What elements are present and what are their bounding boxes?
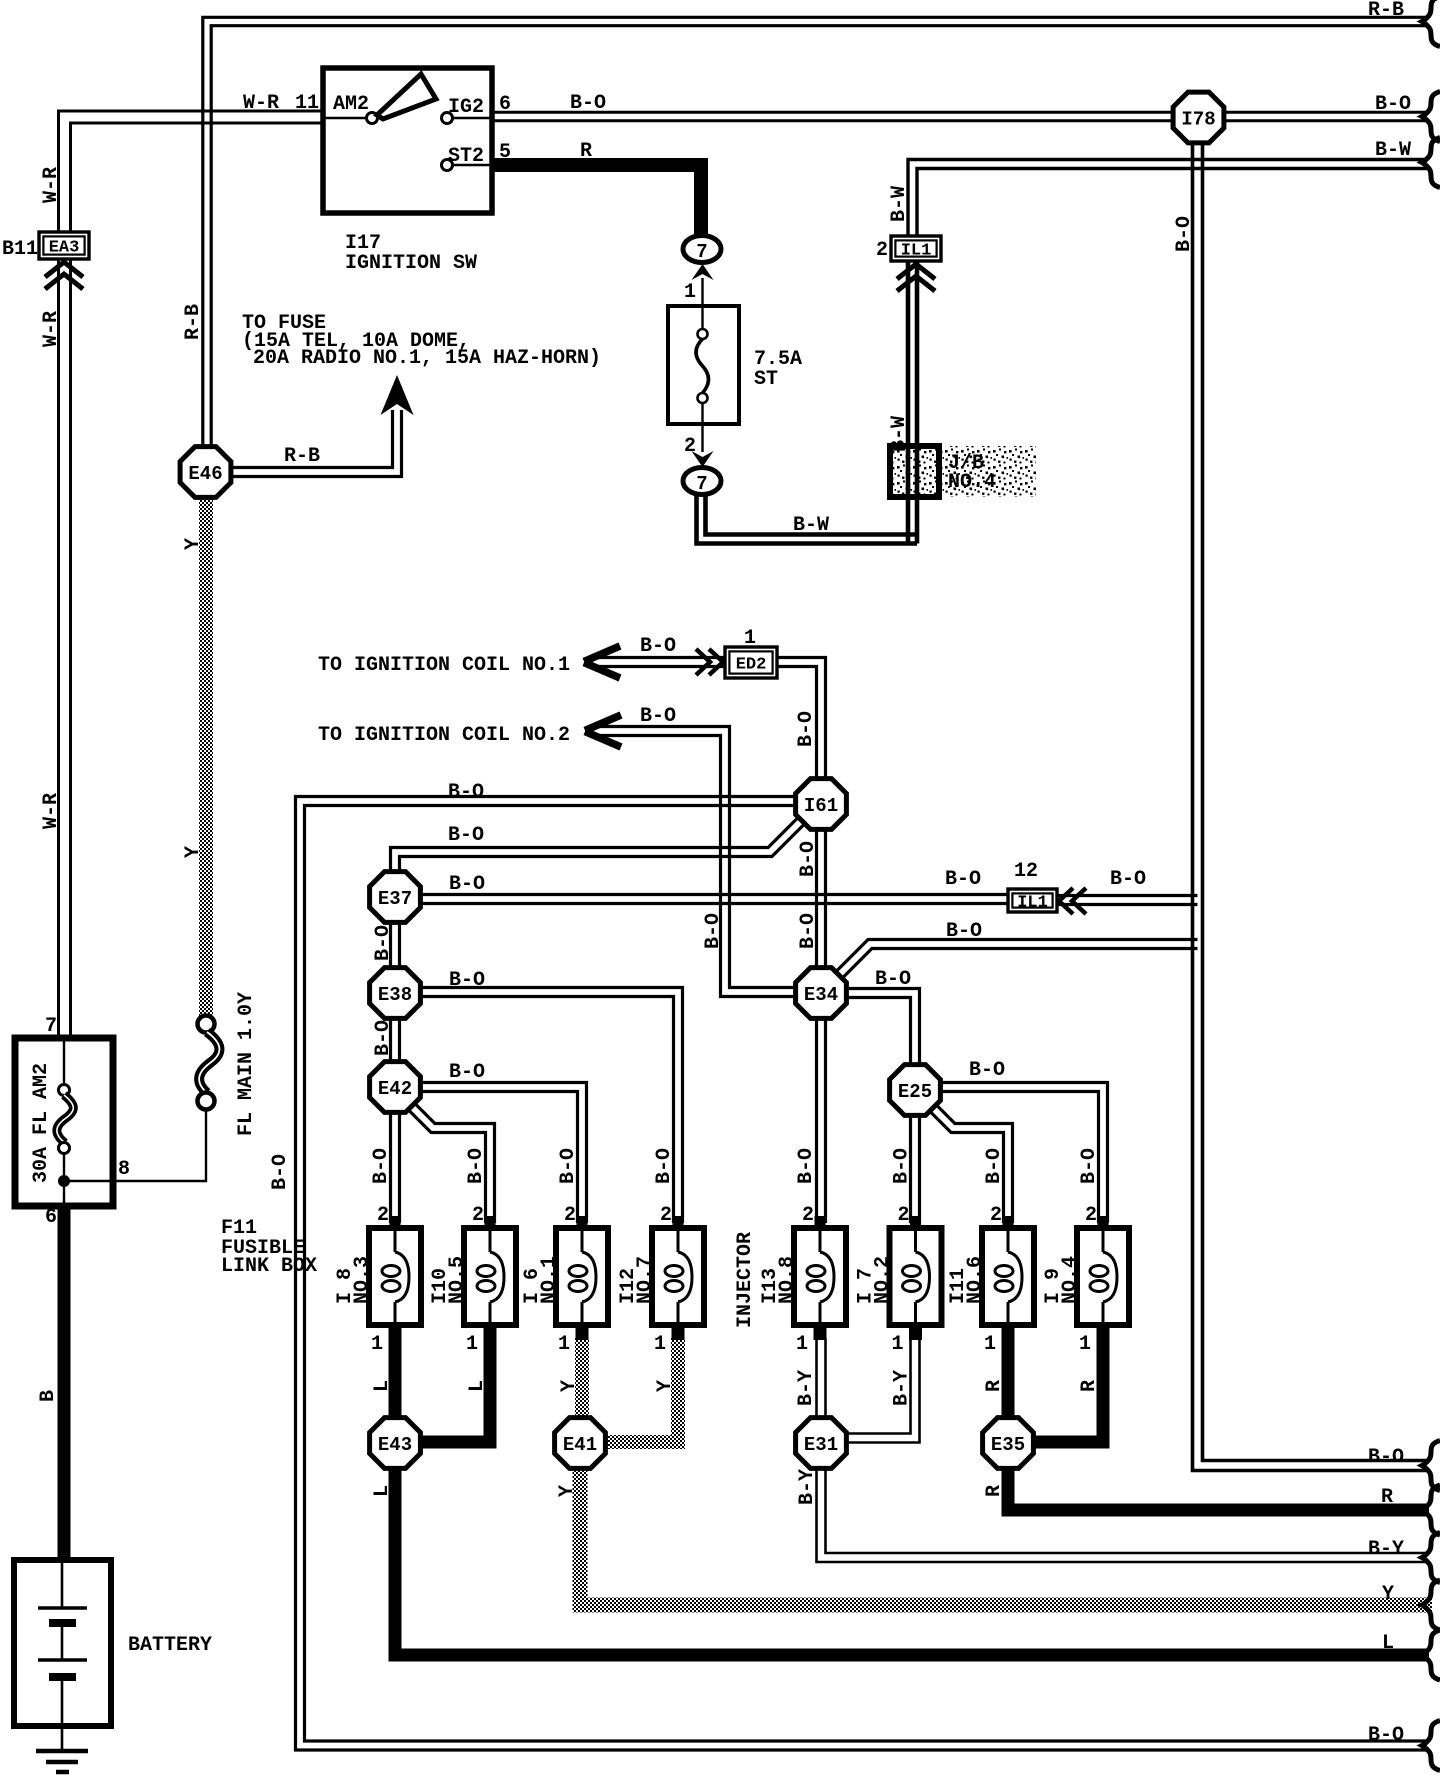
- svg-text:W-R: W-R: [243, 92, 279, 115]
- continuation brace B-O: [1422, 92, 1440, 142]
- continuation brace L: [1422, 1630, 1440, 1680]
- svg-text:2: 2: [660, 1204, 672, 1227]
- svg-text:Y: Y: [182, 846, 205, 858]
- connector E38: [370, 968, 421, 1019]
- wire L injector I8 no.3 to E43: [389, 1338, 402, 1420]
- injector I 8 NO.3: [390, 1216, 401, 1229]
- svg-text:1: 1: [744, 627, 756, 650]
- arrowhead into oval 7 top: [692, 264, 714, 280]
- svg-text:B-O: B-O: [269, 1154, 292, 1190]
- wire B-O E25 to injector I9 no.4: [941, 1083, 1108, 1224]
- svg-text:B-W: B-W: [888, 416, 911, 452]
- svg-text:B-O: B-O: [557, 1148, 580, 1184]
- wire B-O E25 to injector I7 no.2: [918, 1114, 921, 1223]
- svg-text:E42: E42: [378, 1078, 412, 1100]
- svg-text:B-Y: B-Y: [891, 1370, 914, 1406]
- svg-text:NO.2: NO.2: [872, 1256, 895, 1304]
- svg-text:B-O: B-O: [448, 824, 484, 847]
- connector EA3: [39, 232, 89, 259]
- svg-text:6: 6: [45, 1206, 57, 1229]
- wire R E35 to right edge: [1008, 1467, 1429, 1510]
- svg-text:2: 2: [897, 1204, 909, 1227]
- svg-text:L: L: [371, 1485, 394, 1497]
- fuse pin 7 oval bottom: [683, 468, 721, 495]
- connector ED2: [725, 647, 777, 678]
- svg-text:NO.4: NO.4: [948, 471, 996, 494]
- svg-text:NO.8: NO.8: [776, 1256, 799, 1304]
- svg-text:L: L: [371, 1380, 394, 1392]
- svg-text:Y: Y: [558, 1380, 581, 1392]
- svg-text:2: 2: [802, 1204, 814, 1227]
- svg-text:TO IGNITION COIL NO.2: TO IGNITION COIL NO.2: [318, 724, 570, 747]
- I17 terminal AM2: [367, 113, 378, 124]
- svg-text:B-O: B-O: [1375, 93, 1411, 116]
- chevron arrow into ED2: [709, 649, 723, 675]
- svg-text:B: B: [37, 1390, 60, 1402]
- svg-text:2: 2: [1085, 1204, 1097, 1227]
- continuation brace B-O bottom: [1422, 1721, 1440, 1771]
- connector E43: [370, 1418, 421, 1469]
- svg-text:B-O: B-O: [640, 705, 676, 728]
- svg-text:E46: E46: [188, 463, 222, 485]
- svg-text:B-O: B-O: [797, 913, 820, 949]
- wire R-B top line to right edge: [211, 26, 1427, 449]
- battery symbol: [61, 1560, 64, 1607]
- wire B-O E42 to injector I6 no.1: [421, 1083, 587, 1224]
- fuse 7.5A ST element: [701, 278, 703, 330]
- svg-text:2: 2: [990, 1204, 1002, 1227]
- svg-text:B-O: B-O: [875, 968, 911, 991]
- svg-text:Y: Y: [654, 1380, 677, 1392]
- svg-text:B-O: B-O: [795, 1148, 818, 1184]
- svg-text:W-R: W-R: [40, 311, 63, 347]
- svg-text:NO.7: NO.7: [634, 1256, 657, 1304]
- svg-text:ST2: ST2: [448, 145, 484, 168]
- wire B-O I61 to E34: [824, 827, 827, 969]
- svg-text:B-O: B-O: [945, 868, 981, 891]
- injector I 6 NO.1: [577, 1216, 588, 1229]
- ignition switch I17 box: [323, 68, 492, 213]
- svg-text:I78: I78: [1181, 109, 1215, 131]
- svg-text:W-R: W-R: [40, 793, 63, 829]
- svg-text:E35: E35: [991, 1434, 1025, 1456]
- svg-text:EA3: EA3: [49, 239, 80, 258]
- svg-text:L: L: [466, 1380, 489, 1392]
- connector IL1 pin12: [1008, 889, 1057, 912]
- svg-text:B-O: B-O: [946, 920, 982, 943]
- svg-text:LINK BOX: LINK BOX: [221, 1255, 317, 1278]
- wire B-O to ignition coil no.1 from ED2: [597, 656, 727, 659]
- svg-text:E34: E34: [804, 984, 838, 1006]
- svg-text:E37: E37: [378, 888, 412, 910]
- svg-text:2: 2: [377, 1204, 389, 1227]
- fusible link box F11: [15, 1038, 113, 1206]
- wire B-O E38 to injector I12 no.7: [421, 988, 683, 1224]
- arrowhead into oval 7 bottom: [692, 451, 714, 467]
- svg-text:INJECTOR: INJECTOR: [734, 1232, 757, 1328]
- svg-text:BATTERY: BATTERY: [128, 1634, 212, 1657]
- svg-text:IL1: IL1: [901, 242, 932, 261]
- svg-text:2: 2: [876, 239, 888, 262]
- svg-text:B-O: B-O: [449, 873, 485, 896]
- battery box: [14, 1560, 111, 1726]
- chevron arrow out of IL1-12: [1059, 888, 1073, 914]
- svg-text:8: 8: [118, 1158, 130, 1181]
- svg-text:B-W: B-W: [793, 514, 829, 537]
- connector E42: [370, 1062, 421, 1113]
- connector I61: [796, 779, 847, 830]
- injector I11 NO.6: [1003, 1216, 1014, 1229]
- wire B-O E34 diagonal to I78 vertical: [834, 940, 1198, 974]
- wire Y injector I12 no.7 to E41: [607, 1338, 678, 1442]
- connector E37: [370, 872, 421, 923]
- svg-text:B-O: B-O: [465, 1148, 488, 1184]
- svg-text:Y: Y: [182, 538, 205, 550]
- svg-text:E41: E41: [563, 1434, 597, 1456]
- svg-text:B-O: B-O: [448, 781, 484, 804]
- svg-text:IG2: IG2: [448, 96, 484, 119]
- wire B-W IL1 down to J/B No.4: [915, 259, 920, 544]
- svg-text:B-W: B-W: [1375, 139, 1411, 162]
- svg-text:R: R: [580, 140, 592, 163]
- svg-text:5: 5: [499, 141, 511, 164]
- svg-text:B-Y: B-Y: [796, 1469, 819, 1505]
- continuation brace B-O lower: [1422, 1441, 1440, 1491]
- svg-text:B-O: B-O: [570, 92, 606, 115]
- svg-text:2: 2: [472, 1204, 484, 1227]
- svg-text:B-O: B-O: [372, 1020, 395, 1056]
- injector I12 NO.7: [673, 1216, 684, 1229]
- chevron arrow below IL1-2: [897, 264, 935, 279]
- svg-text:R-B: R-B: [182, 304, 205, 340]
- svg-text:B-O: B-O: [1368, 1724, 1404, 1747]
- I17 terminal ST2: [442, 160, 453, 171]
- continuation brace R: [1422, 1485, 1440, 1535]
- svg-text:B-O: B-O: [370, 1148, 393, 1184]
- svg-text:ST: ST: [754, 368, 778, 391]
- connector I78: [1173, 92, 1224, 143]
- chevron arrow below EA3: [45, 262, 83, 277]
- svg-text:L: L: [1382, 1632, 1394, 1655]
- wire B-O E42 to injector I8 no.3: [398, 1110, 401, 1223]
- svg-text:W-R: W-R: [40, 167, 63, 203]
- wire B-O E42 diagonal to injector I10 no.5: [411, 1100, 494, 1223]
- wire B-O E37 to E38: [398, 921, 401, 969]
- wire R ST2 to fuse oval 7: [492, 165, 701, 238]
- svg-text:1: 1: [466, 1333, 478, 1356]
- svg-text:R: R: [983, 1485, 1006, 1497]
- svg-text:Y: Y: [1382, 1583, 1394, 1606]
- svg-text:R: R: [1381, 1486, 1393, 1509]
- svg-text:B-O: B-O: [891, 1148, 914, 1184]
- svg-text:B-O: B-O: [1078, 1148, 1101, 1184]
- svg-text:1: 1: [654, 1333, 666, 1356]
- svg-text:20A RADIO NO.1, 15A HAZ-HORN): 20A RADIO NO.1, 15A HAZ-HORN): [253, 347, 601, 370]
- injector I13 NO.8: [815, 1216, 826, 1229]
- svg-text:I61: I61: [804, 795, 838, 817]
- svg-text:E43: E43: [378, 1434, 412, 1456]
- svg-text:E31: E31: [804, 1434, 838, 1456]
- svg-text:2: 2: [684, 435, 696, 458]
- wire B-O ED2 to I61: [776, 658, 826, 782]
- arrowhead to fuse arrow: [381, 375, 414, 415]
- connector E41: [555, 1418, 606, 1469]
- connector IL1 pin2: [891, 236, 941, 261]
- svg-text:1: 1: [558, 1333, 570, 1356]
- svg-text:Y: Y: [556, 1485, 579, 1497]
- ground symbol: [36, 1749, 88, 1754]
- svg-text:NO.1: NO.1: [538, 1256, 561, 1304]
- wire B-Y injector I13 no.8 to E31: [824, 1338, 827, 1420]
- svg-text:B11: B11: [2, 238, 38, 261]
- wire B-O E34 to injector I13 no.8: [824, 1017, 827, 1223]
- arrowhead to ignition coil no.1: [584, 646, 620, 662]
- connector E46: [180, 447, 231, 498]
- injector I10 NO.5: [485, 1216, 496, 1229]
- svg-text:B-O: B-O: [795, 711, 818, 747]
- svg-text:1: 1: [796, 1333, 808, 1356]
- svg-text:ED2: ED2: [736, 656, 767, 675]
- wire B-O to ignition coil no.2 from E34: [597, 727, 798, 988]
- connector E25: [890, 1065, 941, 1116]
- svg-text:B-O: B-O: [969, 1059, 1005, 1082]
- wire Y E46 down to FL MAIN: [199, 496, 213, 1018]
- wire B-O E34 to E25: [845, 989, 920, 1067]
- continuation brace B-W: [1422, 138, 1440, 188]
- injector I 9 NO.4: [1098, 1216, 1109, 1229]
- wire R injector I9 no.4 to E35: [1034, 1338, 1103, 1442]
- svg-text:B-O: B-O: [449, 969, 485, 992]
- svg-text:TO IGNITION COIL NO.1: TO IGNITION COIL NO.1: [318, 654, 570, 677]
- svg-text:B-O: B-O: [1110, 868, 1146, 891]
- wire Y E41 to right edge: [580, 1467, 1432, 1605]
- fusible link FL MAIN 1.0Y: [198, 1016, 215, 1033]
- connector E31: [796, 1418, 847, 1469]
- svg-text:B-O: B-O: [797, 841, 820, 877]
- svg-text:E38: E38: [378, 984, 412, 1006]
- svg-text:30A FL AM2: 30A FL AM2: [30, 1063, 53, 1183]
- wire B-O IG2 to right edge: [492, 111, 1427, 114]
- connector E34: [796, 968, 847, 1019]
- I17 switch lever: [377, 74, 436, 119]
- svg-text:11: 11: [295, 92, 319, 115]
- wire fusible link pin 8 to FL MAIN: [64, 1110, 206, 1181]
- I17 terminal AM2 wire: [323, 117, 366, 119]
- wire B fusible link box to battery: [58, 1206, 71, 1562]
- wire R injector I11 no.6 to E35: [1002, 1338, 1015, 1420]
- continuation brace B-Y: [1422, 1533, 1440, 1583]
- svg-text:NO.6: NO.6: [964, 1256, 987, 1304]
- wire B-O IL1-12 to I78 vertical: [1056, 894, 1198, 897]
- wire W-R battery to ignition SW horizontal: [71, 123, 324, 234]
- svg-text:B-Y: B-Y: [795, 1370, 818, 1406]
- svg-text:6: 6: [499, 93, 511, 116]
- junction block J/B NO.4: [936, 446, 1036, 497]
- svg-text:NO.5: NO.5: [446, 1256, 469, 1304]
- svg-text:AM2: AM2: [333, 93, 369, 116]
- svg-text:E25: E25: [898, 1081, 932, 1103]
- svg-text:1: 1: [984, 1333, 996, 1356]
- svg-text:NO.4: NO.4: [1059, 1256, 1082, 1304]
- arrowhead to ignition coil no.2: [585, 715, 621, 731]
- svg-text:B-Y: B-Y: [1368, 1538, 1404, 1561]
- continuation brace Y: [1422, 1580, 1440, 1630]
- fuse pin 7 oval top: [683, 236, 721, 263]
- wire B-O E25 diagonal to injector I11 no.6: [931, 1100, 1012, 1223]
- wire B-Y injector I7 no.2 to E31: [847, 1338, 920, 1443]
- I17 terminal IG2: [442, 113, 453, 124]
- svg-text:7: 7: [696, 473, 707, 495]
- svg-text:1: 1: [684, 281, 696, 304]
- svg-text:1: 1: [1079, 1333, 1091, 1356]
- injector I 7 NO.2: [910, 1216, 921, 1229]
- wire Y injector I6 no.1 to E41: [575, 1338, 589, 1420]
- wire W-R EA3 to fusible link box: [69, 259, 72, 1040]
- svg-text:R: R: [983, 1380, 1006, 1392]
- svg-text:2: 2: [564, 1204, 576, 1227]
- svg-text:R: R: [1078, 1380, 1101, 1392]
- svg-text:B-O: B-O: [983, 1148, 1006, 1184]
- svg-text:1: 1: [891, 1333, 903, 1356]
- fuse 7.5A ST box: [668, 306, 739, 424]
- svg-text:7: 7: [696, 241, 707, 263]
- wire B-O E37 to IL1-12: [421, 893, 1009, 896]
- svg-text:IL1: IL1: [1017, 894, 1048, 913]
- wire B-Y E31 to right edge: [826, 1467, 1428, 1553]
- wire B-O I78 down to bottom right exit: [1203, 140, 1428, 1461]
- wire R-B E46 to fuse arrow: [231, 410, 393, 468]
- wire L injector I10 no.5 to E43: [422, 1338, 490, 1442]
- svg-text:B-O: B-O: [372, 925, 395, 961]
- fusible link 30A FL AM2: [63, 1038, 65, 1085]
- svg-text:B-O: B-O: [702, 913, 725, 949]
- wire B-W J/B corner to fuse 7 oval: [697, 496, 918, 544]
- svg-text:1: 1: [371, 1333, 383, 1356]
- svg-text:B-O: B-O: [449, 1061, 485, 1084]
- svg-text:7: 7: [45, 1015, 57, 1038]
- svg-text:R-B: R-B: [1368, 0, 1404, 22]
- svg-text:FL MAIN 1.0Y: FL MAIN 1.0Y: [235, 992, 258, 1136]
- svg-text:IGNITION SW: IGNITION SW: [345, 252, 477, 275]
- svg-text:B-W: B-W: [888, 186, 911, 222]
- wire B-W right edge to IL1: [917, 169, 1427, 239]
- svg-text:B-O: B-O: [640, 635, 676, 658]
- svg-text:B-O: B-O: [1368, 1446, 1404, 1469]
- connector E35: [983, 1418, 1034, 1469]
- wire B-O E38 to E42: [398, 1017, 401, 1065]
- wire L E43 to right edge: [395, 1467, 1429, 1655]
- wire B-O E37 up to I61 diagonal: [391, 819, 797, 874]
- svg-text:12: 12: [1014, 860, 1038, 883]
- svg-text:R-B: R-B: [284, 445, 320, 468]
- wire B-O I61 to left vertical to bottom edge: [305, 806, 1428, 1742]
- svg-text:NO.3: NO.3: [351, 1256, 374, 1304]
- svg-text:B-O: B-O: [1173, 216, 1196, 252]
- continuation brace R-B: [1422, 0, 1440, 47]
- svg-text:B-O: B-O: [653, 1148, 676, 1184]
